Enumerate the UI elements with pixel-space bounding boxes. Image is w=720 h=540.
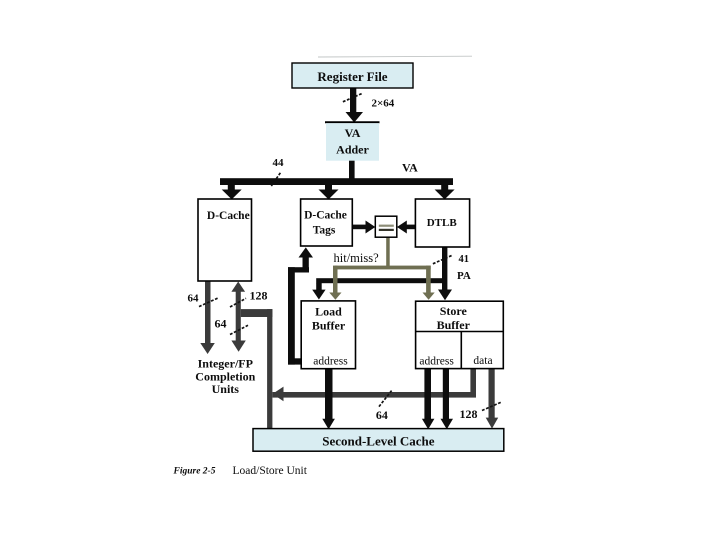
svg-text:PA: PA bbox=[457, 270, 471, 282]
svg-text:data: data bbox=[473, 355, 492, 367]
svg-text:Register File: Register File bbox=[317, 69, 387, 84]
svg-text:hit/miss?: hit/miss? bbox=[334, 251, 380, 265]
svg-text:64: 64 bbox=[215, 317, 227, 331]
svg-text:address: address bbox=[313, 356, 348, 368]
svg-text:Load: Load bbox=[315, 305, 342, 319]
svg-text:Integer/FP: Integer/FP bbox=[198, 357, 253, 371]
svg-text:128: 128 bbox=[460, 407, 478, 421]
svg-text:D-Cache: D-Cache bbox=[207, 210, 250, 222]
svg-text:DTLB: DTLB bbox=[427, 217, 458, 229]
svg-text:Store: Store bbox=[440, 304, 468, 318]
svg-text:Units: Units bbox=[212, 382, 240, 396]
svg-text:2×64: 2×64 bbox=[372, 98, 395, 110]
svg-text:VA: VA bbox=[402, 161, 418, 175]
svg-text:Buffer: Buffer bbox=[312, 319, 346, 333]
svg-text:Load/Store Unit: Load/Store Unit bbox=[233, 465, 308, 477]
svg-text:128: 128 bbox=[250, 289, 268, 303]
svg-text:Figure 2-5: Figure 2-5 bbox=[173, 467, 216, 477]
svg-text:64: 64 bbox=[376, 408, 388, 422]
svg-text:44: 44 bbox=[273, 157, 285, 169]
svg-text:41: 41 bbox=[459, 254, 470, 265]
svg-text:address: address bbox=[419, 356, 454, 368]
svg-text:VA: VA bbox=[345, 126, 361, 140]
svg-text:Buffer: Buffer bbox=[437, 318, 471, 332]
svg-text:D-Cache: D-Cache bbox=[304, 210, 347, 222]
svg-text:Second-Level Cache: Second-Level Cache bbox=[322, 433, 435, 448]
svg-text:Tags: Tags bbox=[313, 225, 336, 237]
svg-text:Adder: Adder bbox=[336, 143, 369, 157]
svg-text:64: 64 bbox=[188, 293, 200, 305]
